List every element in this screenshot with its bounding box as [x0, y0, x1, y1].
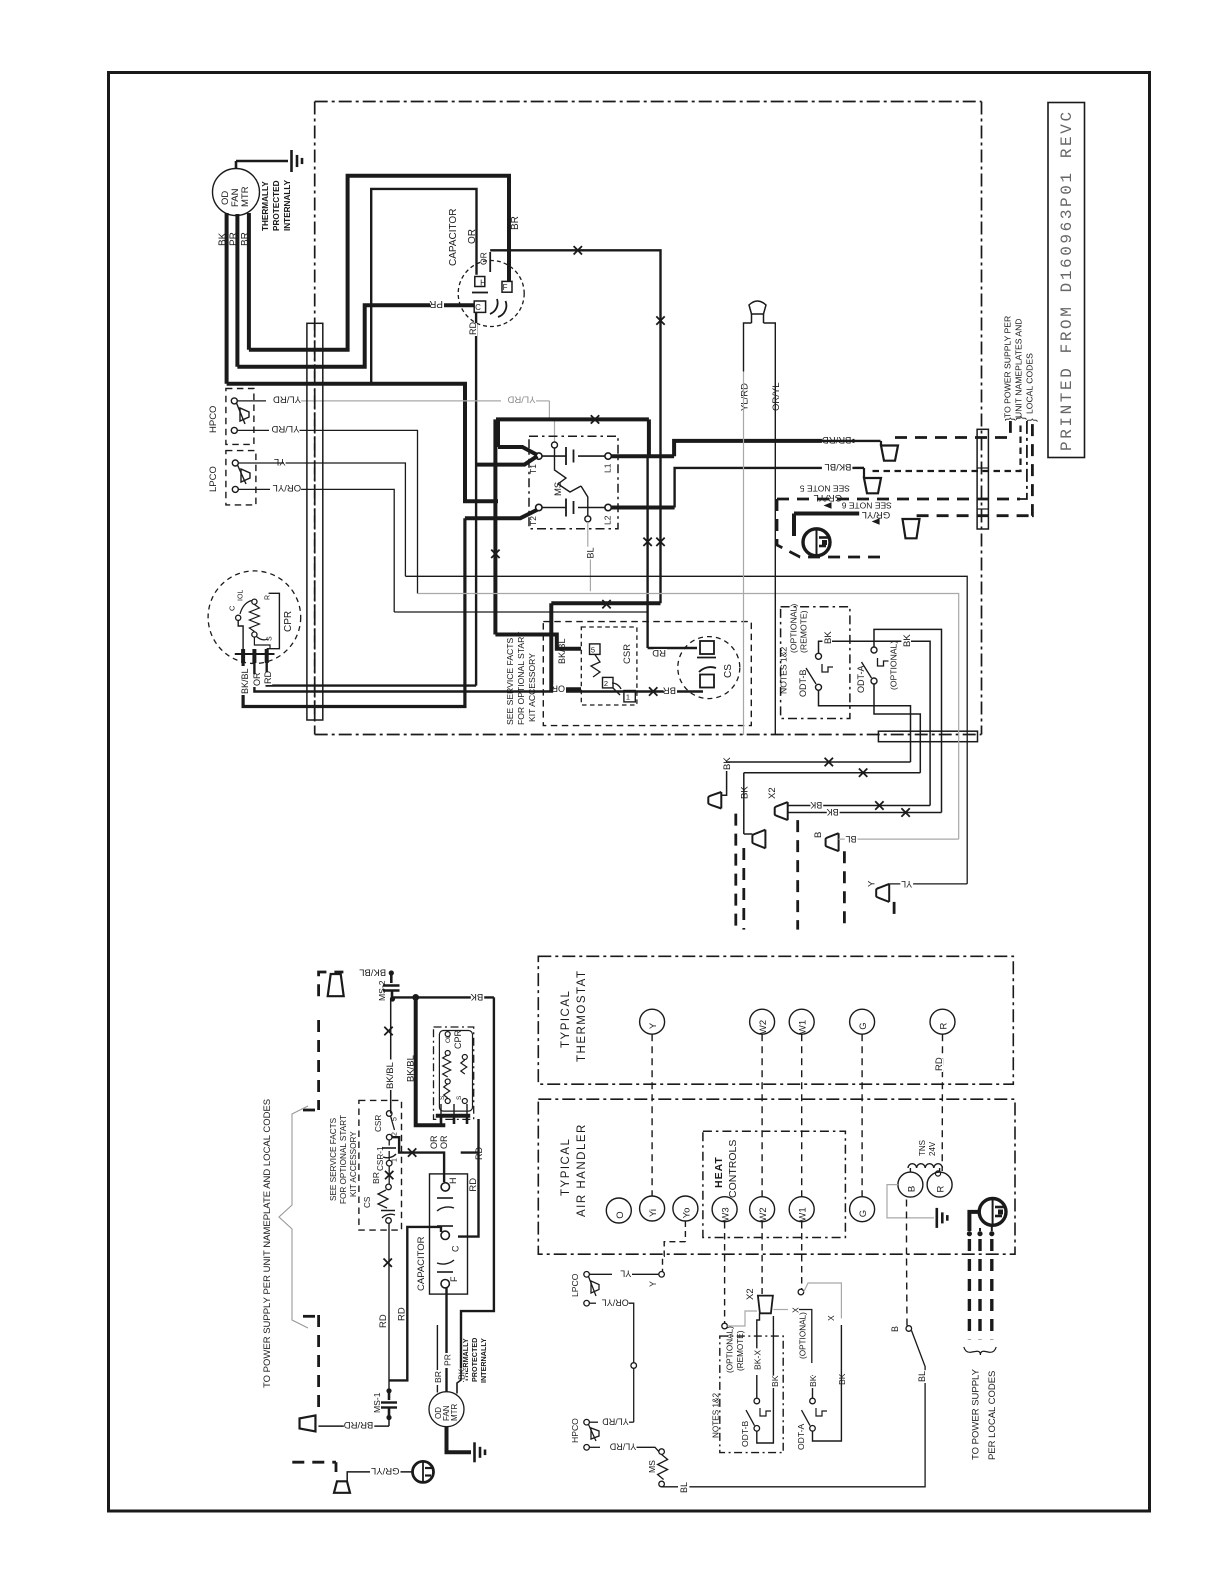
- wire BR/RD to plug: [318, 1425, 389, 1427]
- CPR bottom dash-dot box: [434, 1027, 474, 1119]
- bold dash below B plug: [843, 851, 846, 929]
- svg-text:OR/YL: OR/YL: [771, 382, 782, 411]
- wire H to OR junction: [371, 189, 476, 384]
- CPR bottom terminal bus: [436, 1114, 470, 1118]
- svg-text:MS: MS: [647, 1460, 657, 1473]
- brace power supply bottom: [964, 1347, 996, 1355]
- compressor CPR dashed circle: [208, 571, 301, 664]
- svg-text:CSR: CSR: [374, 1115, 383, 1132]
- wire RD capacitor down: [475, 312, 477, 685]
- svg-text:BK: BK: [808, 1375, 818, 1387]
- top unit boundary dash-dot box: [315, 101, 982, 103]
- circle R coil: [927, 1172, 952, 1197]
- ground near transformer: [935, 1208, 938, 1228]
- thermostat circle W1: [789, 1009, 814, 1034]
- wire BK/BL from L2: [611, 506, 674, 510]
- contactor MS dash-dot box: [529, 436, 618, 529]
- L2 terminal: [605, 504, 611, 510]
- svg-text:G: G: [858, 1022, 869, 1029]
- wire YL/RD vert gray down: [743, 372, 745, 736]
- wire BK ODT-B top: [819, 641, 931, 805]
- svg-text:CAPACITOR: CAPACITOR: [416, 1236, 427, 1291]
- ground top-left: [290, 150, 293, 172]
- svg-text:X: X: [790, 1307, 800, 1313]
- svg-text:BR: BR: [663, 685, 676, 696]
- wire BR motor lead: [247, 213, 251, 350]
- capacitor F terminal: [502, 281, 512, 292]
- svg-text:BL: BL: [917, 1371, 927, 1382]
- svg-text:BR/RD: BR/RD: [822, 434, 852, 445]
- svg-text:OR/YL: OR/YL: [602, 1298, 629, 1308]
- svg-text:PER LOCAL CODES: PER LOCAL CODES: [987, 1371, 998, 1460]
- svg-text:(OPTIONAL): (OPTIONAL): [799, 1312, 808, 1359]
- svg-text:THERMOSTAT: THERMOSTAT: [576, 969, 588, 1062]
- HPCO pressure switch box: [226, 389, 254, 445]
- wire OR CPR to start cap: [254, 663, 703, 692]
- svg-text:BK/BL: BK/BL: [240, 668, 250, 694]
- svg-text:B: B: [890, 1326, 900, 1332]
- wire BK run to contactor T2: [227, 384, 498, 502]
- dashed W1 wire down: [801, 1222, 803, 1289]
- CS plates: [700, 641, 714, 654]
- svg-text:NOTES 1&2: NOTES 1&2: [779, 646, 789, 694]
- gray link W1 right: [804, 1283, 842, 1318]
- junction dots MS-1: [386, 1388, 391, 1393]
- wire gray YL/RD-BL long horizontal: [418, 594, 959, 840]
- wire YL down: [286, 463, 406, 576]
- plug B: [826, 833, 839, 851]
- wire BR run to capacitor F: [249, 176, 509, 350]
- svg-text:CS: CS: [723, 664, 734, 678]
- thermostat circle W2: [750, 1009, 775, 1034]
- LPCO contacts: [232, 460, 238, 466]
- CSR terminal 2: [603, 677, 614, 688]
- CPR terminal stubs: [241, 649, 245, 663]
- pressure switch bell top: [749, 301, 766, 314]
- wire to 3-phase dots: [969, 1212, 979, 1231]
- svg-text:AIR HANDLER: AIR HANDLER: [576, 1123, 588, 1217]
- dashed W3 wire down: [724, 1222, 726, 1323]
- run capacitor dashed circle: [458, 261, 524, 327]
- svg-text:OR/YL: OR/YL: [273, 482, 302, 493]
- wire YL to Y junction: [589, 1273, 612, 1275]
- wire RD to C terminal: [461, 1151, 479, 1153]
- notes 1&2 optional ODT boxes (top diagram): [781, 607, 850, 719]
- capacitor H terminal: [475, 277, 485, 287]
- svg-text:BR: BR: [510, 216, 521, 230]
- wire top thick jumper: [496, 417, 649, 421]
- svg-text:INTERNALLY: INTERNALLY: [479, 1338, 488, 1383]
- circle B coil: [898, 1172, 923, 1197]
- label YL lpco: [238, 462, 284, 464]
- wire BL from L2 aux down: [588, 522, 591, 591]
- thermostat circle Y: [640, 1009, 665, 1034]
- wire motor frame to ground: [235, 161, 238, 169]
- dashed thermostat-to-air-handler wires: [651, 1034, 653, 1195]
- wire OR/YL vert down: [774, 372, 776, 736]
- svg-text:BK: BK: [827, 807, 839, 817]
- wire YL/RD 2 down: [300, 430, 418, 593]
- air handler circle W1: [789, 1197, 814, 1222]
- svg-text:KIT ACCESSORY: KIT ACCESSORY: [527, 653, 537, 722]
- svg-text:BK: BK: [823, 631, 834, 644]
- wire B to ground: [887, 1185, 934, 1218]
- svg-text:OR: OR: [551, 684, 565, 694]
- wire YL/RD gray to MS aux: [301, 400, 501, 402]
- T2 terminal: [536, 504, 542, 510]
- svg-text:Yo: Yo: [681, 1208, 692, 1219]
- CPR terminal labels: [240, 666, 249, 695]
- svg-text:CPR: CPR: [453, 1029, 463, 1049]
- plug BK/BL: [864, 478, 881, 493]
- svg-text:FOR OPTIONAL START: FOR OPTIONAL START: [516, 631, 526, 725]
- svg-text:Yi: Yi: [648, 1209, 659, 1217]
- thermostat circle R: [930, 1009, 955, 1034]
- wire BK-X from plug to ODT-B: [757, 1313, 760, 1345]
- Y junction circle: [659, 1272, 665, 1278]
- svg-text:L2: L2: [603, 515, 613, 525]
- svg-text:T2: T2: [528, 516, 538, 526]
- bold dashed to power supply left: [317, 1315, 320, 1415]
- ODT-A switch bottom: [810, 1398, 816, 1404]
- svg-text:24V: 24V: [928, 1141, 937, 1156]
- svg-text:GR/YL: GR/YL: [371, 1465, 400, 1476]
- wire ODT-A bottom to strip: [874, 684, 920, 773]
- svg-text:SEE SERVICE FACTS: SEE SERVICE FACTS: [505, 637, 515, 725]
- svg-text:YL/RD: YL/RD: [271, 423, 299, 434]
- capacitor box bottom: [430, 1174, 468, 1294]
- svg-text:HEAT: HEAT: [713, 1156, 725, 1188]
- wire BK ODT-A up: [812, 1375, 814, 1398]
- contact bars T1-L1: [542, 455, 566, 457]
- svg-text:CSR: CSR: [622, 644, 633, 664]
- svg-text:OR: OR: [467, 229, 478, 244]
- svg-text:LPCO: LPCO: [570, 1273, 580, 1297]
- wire PR motor lead: [235, 214, 239, 367]
- svg-text:IOL: IOL: [238, 590, 245, 601]
- svg-text:C: C: [451, 1245, 461, 1252]
- air handler circle Yi: [640, 1196, 665, 1221]
- CSR contact: [613, 688, 620, 695]
- svg-text:YL/RD: YL/RD: [507, 394, 535, 405]
- wire BK down right side: [461, 997, 494, 1369]
- plug GR/YL bottom: [334, 1481, 350, 1493]
- dashed B wire up: [906, 1255, 909, 1326]
- svg-text:BK: BK: [740, 786, 751, 799]
- svg-text:PRINTED FROM D160963P01 REVC: PRINTED FROM D160963P01 REVC: [1058, 109, 1076, 451]
- CS start cap bottom: [386, 1184, 392, 1190]
- plug BR/RD: [881, 446, 898, 461]
- air handler circle W2: [750, 1197, 775, 1222]
- svg-text:YL/RD: YL/RD: [602, 1417, 629, 1427]
- svg-text:GR/YL: GR/YL: [814, 492, 843, 503]
- typical thermostat dash-dot box: [538, 956, 1013, 1084]
- wire OR/YL mid horizontal: [394, 611, 647, 613]
- plug GR/YL note6: [903, 519, 920, 538]
- svg-text:INTERNALLY: INTERNALLY: [283, 179, 292, 231]
- svg-text:H: H: [448, 1178, 458, 1185]
- ODT-B switch bottom: [754, 1398, 760, 1404]
- wire YL/RD hpco bottom to MS coil: [589, 1446, 600, 1448]
- capacitor C terminal: [474, 301, 485, 312]
- svg-text:PR: PR: [443, 1354, 453, 1366]
- svg-text:BK/BL: BK/BL: [824, 461, 851, 472]
- svg-text:(REMOTE): (REMOTE): [736, 1330, 745, 1371]
- svg-text:S: S: [439, 1095, 446, 1100]
- wire YL long horizontal: [405, 576, 967, 884]
- typical air handler dash-dot box: [538, 1099, 1015, 1254]
- label OR/YL lpco: [238, 488, 270, 490]
- bold dashed box around ground: [777, 499, 880, 557]
- wire GR/YL to plug: [347, 1472, 412, 1481]
- svg-text:BK: BK: [902, 634, 913, 647]
- dashed W2 wire down to X2 plug: [761, 1222, 763, 1294]
- plug BK/BL bottom diagram: [328, 974, 344, 996]
- svg-text:}: }: [1026, 418, 1038, 422]
- OD fan motor bottom circle: [429, 1392, 464, 1427]
- svg-text:OL: OL: [445, 1034, 452, 1043]
- svg-text:BK-X: BK-X: [753, 1350, 763, 1370]
- wire OR capacitor H to right: [490, 250, 660, 603]
- CSR coil zigzag: [591, 654, 600, 677]
- ground bottom motor: [473, 1442, 476, 1462]
- CSR terminal 1: [624, 691, 635, 702]
- wire BK motor lead: [225, 213, 229, 384]
- svg-text:BK/BL: BK/BL: [359, 967, 386, 978]
- svg-text:1: 1: [392, 1158, 399, 1162]
- svg-text:(OPTIONAL): (OPTIONAL): [726, 1326, 735, 1373]
- svg-text:T1: T1: [528, 464, 538, 474]
- thermostat circle G: [850, 1009, 875, 1034]
- X marks below contactor: [491, 550, 499, 558]
- svg-text:(OPTIONAL): (OPTIONAL): [789, 604, 799, 653]
- ODT-B switch top: [816, 653, 822, 659]
- svg-text:PROTECTED: PROTECTED: [470, 1338, 479, 1382]
- wire BK/BL right branch down: [416, 997, 446, 1125]
- terminal strip vertical right side: [977, 429, 988, 529]
- svg-text:MTR: MTR: [240, 186, 251, 207]
- contact bars T2-L2: [542, 507, 566, 509]
- svg-text:S: S: [267, 636, 274, 641]
- plug Y: [876, 884, 889, 902]
- svg-text:PR: PR: [429, 298, 443, 309]
- svg-text:THERMALLY: THERMALLY: [261, 181, 270, 231]
- svg-text:C: C: [228, 605, 237, 611]
- MS coil: [552, 442, 558, 448]
- capacitor F terminal bottom: [441, 1280, 449, 1288]
- svg-text:PROTECTED: PROTECTED: [272, 180, 281, 231]
- svg-text:RD: RD: [263, 671, 273, 684]
- svg-text:C: C: [475, 303, 481, 312]
- svg-text:TO POWER SUPPLY: TO POWER SUPPLY: [971, 1368, 982, 1460]
- wire L1 to BR/RD: [611, 454, 674, 458]
- svg-text:L1: L1: [603, 463, 613, 473]
- plug X2 bottom: [758, 1296, 773, 1314]
- svg-text:W3: W3: [721, 1207, 732, 1221]
- dashed runs to power supply strip: [895, 421, 1010, 438]
- svg-text:MS-1: MS-1: [372, 1392, 382, 1413]
- svg-text:BK/BL: BK/BL: [557, 638, 567, 664]
- wire ODT-B bottom to strip: [819, 690, 911, 762]
- svg-text:5: 5: [392, 1117, 399, 1121]
- plug BR/RD bottom: [300, 1415, 316, 1431]
- CPR internals: [236, 615, 241, 620]
- wire T2 lower into arrow: [465, 510, 537, 519]
- svg-text:Y: Y: [867, 880, 878, 887]
- svg-text:Y: Y: [648, 1281, 658, 1287]
- brace bracket left: [279, 1106, 308, 1328]
- gray link W3 to X2 plug: [727, 1311, 757, 1326]
- svg-text:OR: OR: [439, 1135, 449, 1149]
- svg-text:LOCAL CODES: LOCAL CODES: [1025, 353, 1035, 414]
- svg-text:BK/BL: BK/BL: [406, 1055, 417, 1082]
- wires from X2 plug: [788, 805, 930, 807]
- wire OR branch to H: [392, 1137, 444, 1182]
- svg-text:1: 1: [626, 693, 630, 702]
- svg-text:TO POWER SUPPLY PER: TO POWER SUPPLY PER: [1003, 316, 1013, 418]
- CSR relay dashed box: [581, 627, 637, 705]
- svg-text:(OPTIONAL): (OPTIONAL): [888, 641, 898, 690]
- title block PRINTED FROM D160963P01 REVC: [1048, 103, 1085, 458]
- svg-text:RD: RD: [378, 1314, 389, 1328]
- svg-text:FOR OPTIONAL START: FOR OPTIONAL START: [339, 1115, 348, 1204]
- svg-text:TNS: TNS: [918, 1140, 927, 1156]
- svg-text:MTR: MTR: [450, 1403, 459, 1421]
- wire thick vert from X down to CSR: [493, 419, 497, 634]
- svg-text:W1: W1: [798, 1207, 809, 1221]
- start capacitor CS circle: [678, 637, 740, 699]
- svg-text:CSR-1: CSR-1: [376, 1146, 385, 1171]
- svg-text:R: R: [939, 1022, 950, 1029]
- wire BK/BL left branch down: [390, 999, 392, 1114]
- wire GR/YL to ground circle: [794, 512, 859, 516]
- ODT-A switch top: [871, 647, 877, 653]
- svg-text:MS-2: MS-2: [377, 980, 387, 1001]
- ODT-A right rail: [813, 1390, 842, 1441]
- wire BR segment: [388, 1166, 390, 1184]
- air handler circle W3: [712, 1197, 737, 1222]
- LPCO pressure switch box: [226, 451, 256, 505]
- wire BK ODT-A top: [874, 629, 942, 812]
- wire Y plug bottom continue: [893, 940, 895, 956]
- wire X right from plug: [773, 1309, 788, 1311]
- svg-text:CPR: CPR: [283, 611, 294, 632]
- label YL/RD hpco1: [237, 400, 266, 402]
- wire OR/YL lpco down: [589, 1302, 596, 1304]
- contact MS-2: [390, 973, 393, 983]
- svg-text:SEE SERVICE FACTS: SEE SERVICE FACTS: [329, 1117, 338, 1201]
- svg-text:BK/BL: BK/BL: [385, 1062, 396, 1089]
- air handler circle G: [850, 1197, 875, 1222]
- wire BK field 1: [726, 761, 911, 763]
- B junction circle: [906, 1326, 912, 1332]
- svg-text:O: O: [615, 1211, 626, 1218]
- svg-text:RD: RD: [468, 322, 478, 335]
- bold dash below Y plug: [893, 902, 896, 922]
- wire RD CPR to motor branch: [458, 1149, 479, 1237]
- svg-text:BL: BL: [679, 1482, 689, 1493]
- svg-text:S: S: [456, 1095, 463, 1100]
- CPR bottom internals: [439, 1031, 472, 1112]
- wire YL/RD hpco top: [589, 1421, 598, 1423]
- svg-text:2: 2: [392, 1132, 399, 1136]
- svg-text:SEE NOTE 5: SEE NOTE 5: [800, 484, 850, 494]
- svg-text:TYPICAL: TYPICAL: [560, 1138, 572, 1196]
- terminal strip horizontal at unit boundary: [878, 731, 977, 742]
- svg-text:F: F: [449, 1276, 459, 1282]
- svg-text:ODT-A: ODT-A: [856, 665, 866, 693]
- svg-text:RD: RD: [397, 1307, 408, 1321]
- svg-text:2: 2: [604, 679, 608, 688]
- bold dash below BK plugs: [734, 814, 737, 930]
- svg-text:CS: CS: [363, 1196, 372, 1208]
- svg-text:Y: Y: [648, 1022, 659, 1029]
- wire RD thin long: [388, 1224, 390, 1391]
- plug BK 2: [752, 830, 765, 849]
- T1 feed arrow: [476, 456, 537, 465]
- svg-text:W2: W2: [758, 1020, 769, 1034]
- bold dashed field wire top-left of bottom diagram: [319, 972, 344, 996]
- CSR-1 contact bottom: [386, 1111, 392, 1117]
- svg-text:BK: BK: [722, 757, 733, 770]
- wire motor to ground bottom: [447, 1427, 472, 1453]
- svg-text:YL: YL: [620, 1269, 631, 1279]
- svg-text:X2: X2: [745, 1288, 756, 1300]
- wire Yo steps to Y: [684, 1221, 686, 1242]
- svg-text:KIT ACCESSORY: KIT ACCESSORY: [349, 1131, 358, 1197]
- svg-text:OR: OR: [429, 1135, 439, 1149]
- OD fan motor circle: [213, 169, 260, 216]
- svg-text:H: H: [480, 279, 486, 288]
- ODT-B right rail: [757, 1316, 774, 1443]
- svg-text:YL/RD: YL/RD: [273, 394, 301, 405]
- wire BK to right: [393, 996, 494, 998]
- wire harness conduit rectangle: [307, 323, 323, 720]
- svg-text:ODT-B: ODT-B: [740, 1420, 750, 1447]
- air handler circle Yo: [673, 1196, 698, 1221]
- svg-text:RD: RD: [934, 1057, 945, 1071]
- svg-text:HPCO: HPCO: [208, 406, 219, 433]
- svg-text:YL: YL: [901, 879, 912, 889]
- svg-text:R: R: [936, 1185, 947, 1192]
- svg-text:BR: BR: [371, 1172, 381, 1184]
- svg-text:(REMOTE): (REMOTE): [799, 610, 809, 653]
- plug X2: [775, 802, 788, 820]
- svg-text:OR: OR: [252, 672, 262, 686]
- chassis ground circle bottom right: [979, 1199, 1006, 1226]
- wire RD CPR to capacitor leg: [267, 663, 476, 686]
- svg-text:YL/RD: YL/RD: [739, 383, 750, 411]
- chassis ground circle top: [803, 529, 830, 556]
- svg-text:TYPICAL: TYPICAL: [560, 990, 572, 1048]
- svg-text:BK: BK: [810, 800, 822, 810]
- svg-text:UNIT NAMEPLATES AND: UNIT NAMEPLATES AND: [1014, 319, 1024, 419]
- svg-text:BK: BK: [770, 1375, 780, 1387]
- chassis ground circle GR/YL bottom: [413, 1461, 434, 1482]
- svg-text:SEE NOTE 6: SEE NOTE 6: [841, 501, 891, 511]
- svg-text:MS: MS: [553, 482, 564, 496]
- label YL/RD hpco2: [237, 429, 269, 431]
- junction dot MS-2 top: [389, 970, 394, 975]
- svg-text:BR/RD: BR/RD: [344, 1419, 374, 1430]
- svg-text:B: B: [813, 832, 824, 838]
- svg-text:B: B: [906, 1186, 917, 1192]
- wire RD thick long: [389, 1227, 441, 1381]
- svg-text:LPCO: LPCO: [208, 466, 219, 492]
- bold dash below X2: [796, 820, 799, 930]
- page border frame: [109, 73, 1150, 1512]
- wire BK field 2: [744, 772, 921, 774]
